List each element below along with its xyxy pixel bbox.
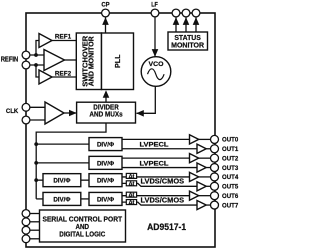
wire REF2 buffer to switchover — [52, 76, 76, 78]
wire divider feedback to PLL — [103, 90, 110, 102]
svg-text:DIV/Φ: DIV/Φ — [53, 178, 70, 185]
wire CLK+ to buffer — [26, 106, 45, 108]
svg-text:DIV/Φ: DIV/Φ — [97, 178, 114, 185]
svg-text:Δt: Δt — [129, 181, 135, 187]
block STATUS MONITOR — [168, 32, 208, 50]
pin OUT6 — [211, 192, 219, 200]
svg-text:REF1: REF1 — [55, 34, 71, 41]
svg-text:REFIN: REFIN — [1, 57, 19, 64]
wire driver OUT1 to pin — [206, 148, 214, 150]
svg-text:Δt: Δt — [129, 174, 135, 180]
wire serial pin 2 — [26, 221, 40, 223]
wire status monitor output 3 — [193, 17, 200, 32]
node junction REFIN+ — [34, 53, 38, 57]
node bus junction row 1 — [34, 142, 38, 146]
label REF1 — [55, 34, 71, 41]
svg-text:OUT4: OUT4 — [222, 174, 239, 181]
svg-text:LVPECL: LVPECL — [140, 160, 169, 167]
svg-text:OUT7: OUT7 — [222, 202, 239, 209]
wire driver OUT5 to pin — [206, 185, 214, 187]
block PLL — [102, 33, 134, 90]
svg-text:AD9517-1: AD9517-1 — [147, 221, 186, 232]
svg-text:AND MUXs: AND MUXs — [89, 112, 122, 119]
serial pin 4 — [22, 235, 30, 243]
pin REFIN label — [1, 57, 19, 64]
label LVDS/CMOS row 4 — [141, 197, 185, 204]
wire REFIN+ to ref buffers — [26, 54, 44, 56]
label LVDS/CMOS row 3 — [141, 179, 185, 186]
pin OUT4 — [211, 173, 219, 181]
svg-text:LF: LF — [151, 1, 158, 8]
wire serial pin 3 — [26, 229, 40, 231]
wire to REF2 buffer — [36, 65, 39, 77]
wire divider to delta-t lower row 4 — [122, 202, 197, 205]
driver OUT4 — [190, 172, 199, 181]
svg-text:AND: AND — [76, 224, 90, 231]
wire between dividers row 3 — [81, 179, 89, 181]
wire divider to driver upper row 1 — [122, 138, 190, 140]
divider DIV/Φ row 4 — [89, 192, 122, 205]
pin LF — [151, 9, 159, 17]
wire bus to divider row 1 — [36, 143, 89, 145]
label LVPECL row 1 — [140, 142, 169, 149]
wire CP to PLL (charge pump output) — [102, 17, 109, 33]
oscillator VCO — [141, 57, 171, 87]
divider DIV/Φ row 4 first — [43, 192, 81, 205]
label OUT5 — [222, 184, 239, 191]
node junction REFIN- — [34, 63, 38, 67]
wire CLK- to buffer — [26, 119, 45, 121]
svg-text:DIV/Φ: DIV/Φ — [97, 160, 114, 167]
label AD9517-1 — [147, 221, 186, 232]
buffer differential reference — [44, 50, 65, 71]
delay Δt upper row 4 — [126, 192, 136, 199]
label OUT3 — [222, 165, 239, 172]
svg-text:DIV/Φ: DIV/Φ — [97, 196, 114, 203]
wire bus to divider row 3 — [36, 179, 43, 181]
label OUT1 — [222, 146, 239, 153]
svg-text:DIGITAL LOGIC: DIGITAL LOGIC — [59, 231, 105, 238]
svg-text:SERIAL CONTROL PORT: SERIAL CONTROL PORT — [43, 217, 123, 224]
wire between dividers row 4 — [81, 198, 89, 200]
svg-text:OUT6: OUT6 — [222, 193, 239, 200]
buffer CLK input — [45, 102, 64, 124]
divider DIV/Φ row 3 first — [43, 174, 81, 187]
wire driver OUT4 to pin — [199, 176, 215, 178]
buffer REF2 — [39, 70, 52, 84]
wire VCO to divider — [136, 86, 155, 116]
driver OUT1 — [197, 144, 206, 153]
svg-text:MONITOR: MONITOR — [171, 41, 204, 49]
label OUT6 — [222, 193, 239, 200]
wire driver OUT3 to pin — [206, 167, 214, 169]
delay Δt lower row 4 — [126, 200, 136, 207]
pin OUT5 — [211, 182, 219, 190]
status pin 3 — [192, 9, 200, 17]
node bus junction row 2 — [34, 161, 38, 165]
divider DIV/Φ row 2 — [89, 156, 122, 169]
wire driver OUT2 to pin — [199, 157, 215, 159]
wire LF to VCO (loop filter) — [152, 17, 159, 57]
wire serial pin 1 — [26, 213, 40, 215]
pin CLK+ — [22, 103, 30, 111]
wire bus to divider row 2 — [36, 162, 89, 164]
svg-text:REF2: REF2 — [55, 71, 71, 78]
wire divider to delta-t lower row 3 — [122, 183, 197, 186]
pin OUT0 — [211, 135, 219, 143]
svg-text:CLK: CLK — [6, 108, 18, 115]
wire REF1 buffer to switchover — [52, 40, 76, 42]
wire REFIN- to ref buffers — [26, 64, 44, 66]
wire divider output bus — [36, 123, 106, 199]
wire status monitor output 2 — [183, 17, 190, 32]
svg-text:LVPECL: LVPECL — [140, 142, 169, 149]
pin OUT7 — [211, 201, 219, 209]
driver OUT3 — [197, 163, 206, 172]
status pin 2 — [182, 9, 190, 17]
label OUT0 — [222, 137, 239, 144]
divider DIV/Φ row 1 — [89, 138, 122, 151]
wire status monitor output 1 — [173, 17, 180, 32]
svg-text:Δt: Δt — [129, 193, 135, 199]
buffer REF1 — [39, 34, 52, 48]
wire divider to driver lower row 2 — [122, 167, 197, 169]
wire divider to driver upper row 2 — [122, 157, 190, 159]
driver OUT5 — [197, 182, 206, 191]
wire serial pin 4 — [26, 238, 40, 240]
label OUT4 — [222, 174, 239, 181]
status pin 1 — [172, 9, 180, 17]
label OUT7 — [222, 202, 239, 209]
chip outline AD9517-1 — [26, 13, 215, 247]
block DIVIDER AND MUXs — [77, 102, 136, 123]
pin LF label — [151, 1, 158, 8]
block SWITCHOVER AND MONITOR — [76, 33, 101, 90]
delay Δt upper row 3 — [126, 173, 136, 180]
wire bus to divider row 4 — [36, 198, 43, 200]
wire CLK buffer to divider — [64, 110, 77, 117]
svg-text:DIV/Φ: DIV/Φ — [53, 196, 70, 203]
pin CLK label — [6, 108, 18, 115]
pin CLK- — [22, 116, 30, 124]
wire driver OUT0 to pin — [199, 138, 215, 140]
node bus junction row 3 — [34, 178, 38, 182]
label LVPECL row 2 — [140, 160, 169, 167]
wire divider to delta-t upper row 4 — [122, 195, 190, 197]
svg-text:OUT1: OUT1 — [222, 146, 239, 153]
driver OUT0 — [190, 135, 199, 144]
serial pin 3 — [22, 226, 30, 234]
wire divider to driver lower row 1 — [122, 148, 197, 150]
pin REFIN- — [22, 61, 30, 69]
pin CP — [102, 9, 110, 17]
pin CP label — [101, 1, 110, 8]
svg-text:OUT3: OUT3 — [222, 165, 239, 172]
svg-text:PLL: PLL — [113, 54, 122, 68]
svg-text:VCO: VCO — [149, 61, 164, 68]
pin OUT3 — [211, 164, 219, 172]
svg-text:LVDS/CMOS: LVDS/CMOS — [141, 179, 185, 186]
svg-text:CP: CP — [101, 1, 110, 8]
serial pin 2 — [22, 218, 30, 226]
svg-text:OUT2: OUT2 — [222, 155, 239, 162]
wire driver OUT7 to pin — [206, 204, 214, 206]
wire diff ref buffer to switchover — [65, 59, 77, 61]
label REF2 — [55, 71, 71, 78]
label OUT2 — [222, 155, 239, 162]
svg-text:DIV/Φ: DIV/Φ — [97, 141, 114, 148]
driver OUT6 — [190, 191, 199, 200]
wire driver OUT6 to pin — [199, 195, 215, 197]
driver OUT7 — [197, 200, 206, 209]
block SERIAL CONTROL PORT AND DIGITAL LOGIC — [40, 210, 126, 242]
svg-text:OUT0: OUT0 — [222, 137, 239, 144]
pin OUT2 — [211, 154, 219, 162]
svg-text:Δt: Δt — [129, 200, 135, 206]
pin REFIN+ — [22, 51, 30, 59]
delay Δt lower row 3 — [126, 181, 136, 188]
divider DIV/Φ row 3 — [89, 174, 122, 187]
svg-text:AND MONITOR: AND MONITOR — [89, 36, 96, 86]
wire divider to delta-t upper row 3 — [122, 176, 190, 178]
pin OUT1 — [211, 145, 219, 153]
wire to REF1 buffer — [36, 41, 39, 56]
svg-text:OUT5: OUT5 — [222, 184, 239, 191]
svg-text:LVDS/CMOS: LVDS/CMOS — [141, 197, 185, 204]
serial pin 1 — [22, 210, 30, 218]
driver OUT2 — [190, 154, 199, 163]
